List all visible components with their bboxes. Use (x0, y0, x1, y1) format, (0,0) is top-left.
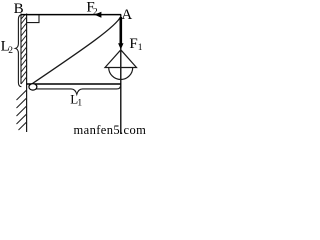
top bar B to A (21, 14, 121, 16)
bottom bar hinge to cord (27, 83, 121, 85)
right angle mark at B (27, 15, 39, 23)
svg-text:1: 1 (138, 43, 143, 53)
force arrow F1 (120, 17, 123, 44)
wall hatching upper (21, 15, 27, 84)
svg-text:B: B (14, 1, 24, 17)
svg-text:2: 2 (8, 46, 13, 56)
wall hatching lower (17, 90, 27, 130)
force arrow F2 (94, 12, 101, 18)
wall right edge (26, 14, 28, 133)
brace L1 (31, 85, 121, 94)
svg-text:manfen5.com: manfen5.com (74, 123, 147, 136)
svg-text:A: A (121, 7, 132, 23)
svg-text:1: 1 (77, 98, 82, 108)
svg-text:2: 2 (93, 7, 98, 17)
wall left edge (20, 14, 22, 85)
diagonal tie rod A to hinge (31, 16, 121, 85)
lamp dome (109, 68, 133, 80)
brace L2 (15, 15, 21, 87)
svg-text:F: F (129, 36, 137, 52)
vertical cord from A (120, 15, 122, 134)
hinge pin circle (29, 84, 37, 90)
lamp cone (105, 50, 137, 68)
